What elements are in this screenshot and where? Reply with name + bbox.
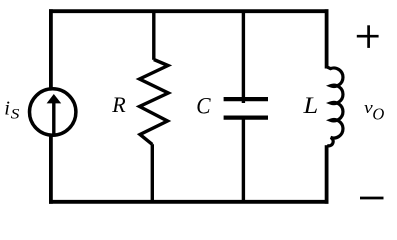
minus sign xyxy=(360,197,384,200)
current source iS circle xyxy=(30,89,76,135)
resistor R bottom lead wire xyxy=(151,144,154,201)
wire left rail upper segment xyxy=(49,9,53,88)
capacitor C bottom lead wire xyxy=(242,118,245,202)
current source arrow shaft xyxy=(52,102,55,135)
wire right rail upper segment xyxy=(325,9,329,68)
current source arrowhead xyxy=(47,94,62,103)
wire top rail xyxy=(49,9,329,13)
wire right rail lower segment xyxy=(325,145,329,204)
plus sign vertical arm xyxy=(367,25,370,48)
inductor L coil xyxy=(327,67,343,146)
svg-text:L: L xyxy=(302,94,318,119)
svg-text:C: C xyxy=(196,92,211,118)
svg-text:R: R xyxy=(111,92,126,117)
resistor R zigzag xyxy=(140,60,169,145)
capacitor C top plate xyxy=(224,97,268,101)
capacitor C top lead wire xyxy=(242,10,245,103)
wire left rail lower segment xyxy=(49,136,53,204)
svg-text:S: S xyxy=(11,106,20,122)
capacitor C bottom plate xyxy=(224,115,268,119)
wire bottom rail xyxy=(49,200,329,204)
svg-text:O: O xyxy=(372,105,384,124)
svg-text:i: i xyxy=(4,98,10,120)
plus sign horizontal arm xyxy=(357,35,379,38)
resistor R top lead wire xyxy=(152,10,155,60)
